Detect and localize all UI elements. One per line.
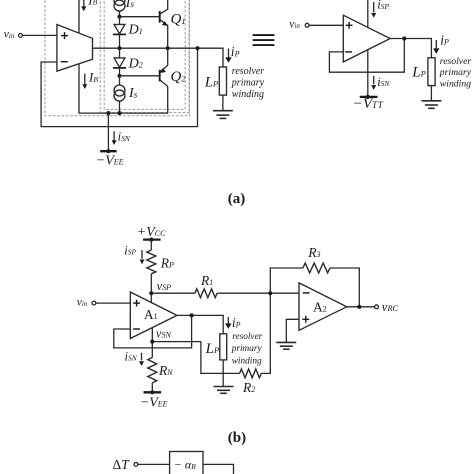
svg-text:winding: winding bbox=[232, 89, 264, 100]
ground (a-right) bbox=[421, 86, 441, 109]
svg-text:primary: primary bbox=[439, 67, 472, 78]
node vSP bbox=[149, 279, 171, 296]
wire A2 output bbox=[347, 306, 375, 308]
op-amp A2 bbox=[299, 283, 347, 330]
svg-text:resolver: resolver bbox=[232, 66, 265, 77]
wire RN to -VEE bbox=[151, 383, 153, 393]
node I (summing node) bbox=[268, 291, 272, 295]
node B (output / diode mid) bbox=[117, 46, 121, 50]
wire op-amp bottom supply pin and negative rail bbox=[79, 63, 168, 114]
wire R3 feedback loop bbox=[270, 268, 303, 293]
wire bottom supply pin to -VTT bbox=[367, 49, 369, 97]
current iSP arrow (right) bbox=[371, 0, 389, 18]
wire R1 to summing node bbox=[217, 292, 299, 294]
svg-text:resolver: resolver bbox=[232, 332, 263, 342]
wire Q2 collector to negative rail bbox=[167, 86, 169, 113]
input terminal vin bbox=[4, 29, 23, 41]
wire LP bottom to ground bbox=[222, 360, 224, 387]
ground (b left) bbox=[214, 387, 234, 394]
wire node to Q1 base bbox=[120, 16, 159, 18]
inductor LP (b) bbox=[205, 334, 227, 360]
ground (a-left) bbox=[213, 95, 233, 118]
current iSP arrow (b) bbox=[124, 243, 144, 264]
resistor R2 bbox=[240, 369, 262, 395]
resistor RN bbox=[148, 358, 173, 383]
supply -VEE bbox=[96, 149, 124, 168]
current iP arrow (b) bbox=[225, 315, 241, 330]
wire iSN drop to -VEE bbox=[107, 113, 109, 151]
bias current IB arrow bottom bbox=[82, 70, 98, 90]
supply -VTT bbox=[353, 95, 384, 112]
wire top supply pin bbox=[367, 0, 369, 29]
resolver winding note (a-right) bbox=[439, 56, 472, 90]
node D (emitter junction) bbox=[166, 46, 170, 50]
diode D1 bbox=[113, 17, 143, 49]
inductor LP (a-right) bbox=[411, 58, 435, 86]
wire vin to op-amp + input bbox=[23, 34, 57, 36]
svg-text:(a): (a) bbox=[228, 191, 246, 207]
svg-text:primary: primary bbox=[231, 344, 263, 354]
wire feedback loop (- input to output node) bbox=[41, 48, 197, 126]
node J (A2 output) bbox=[357, 305, 361, 309]
svg-text:resolver: resolver bbox=[440, 56, 472, 67]
current iSN arrow bbox=[112, 130, 131, 145]
input terminal vin (right) bbox=[289, 19, 309, 31]
resolver winding note (b) bbox=[231, 332, 263, 367]
wire +VCC to RP bbox=[150, 240, 152, 251]
wire op-amp output bus to LP drop bbox=[93, 48, 224, 67]
diode D2 bbox=[113, 48, 143, 76]
input terminal vin (b) bbox=[77, 297, 96, 309]
node H (A1 output) bbox=[190, 313, 194, 317]
wire gain block output (cut off) bbox=[203, 464, 234, 474]
current iP arrow (a-left) bbox=[225, 44, 239, 63]
svg-text:Is: Is bbox=[125, 0, 135, 11]
wire deltaT to gain block bbox=[138, 463, 170, 465]
node C (bias bottom) bbox=[117, 74, 121, 78]
node F (negative rail junctions) bbox=[106, 111, 110, 115]
dashed box middle bbox=[100, 0, 189, 113]
wire output to LP bbox=[390, 39, 431, 58]
wire vin to + input bbox=[309, 24, 343, 26]
resistor R3 bbox=[303, 245, 330, 273]
ground (A2) bbox=[276, 342, 296, 349]
bias current IB arrow top bbox=[81, 0, 97, 11]
svg-text:winding: winding bbox=[232, 357, 262, 367]
wire vSP to R1 bbox=[151, 292, 195, 294]
supply -VEE (b) bbox=[140, 390, 168, 410]
current source IS top (cut off by figure edge) bbox=[114, 0, 134, 17]
svg-text:IB: IB bbox=[87, 0, 97, 7]
svg-text:winding: winding bbox=[440, 79, 471, 90]
equivalence symbol bbox=[253, 35, 275, 45]
gain block -alphaR (cut off by figure edge) bbox=[170, 452, 203, 474]
wire vin to A1 + input bbox=[96, 302, 130, 304]
current iSN arrow (right) bbox=[371, 75, 390, 90]
wire vSN sense line to R2 bbox=[152, 342, 239, 374]
node E (feedback tap) bbox=[195, 46, 199, 50]
dashed box outer (buffer stage) bbox=[45, 0, 190, 116]
node G (output node right) bbox=[402, 36, 406, 40]
svg-text:primary: primary bbox=[231, 77, 265, 88]
wire A1 feedback (- input to output node) bbox=[114, 315, 192, 348]
resolver winding note (a-left) bbox=[231, 66, 265, 100]
op-amp U2 bbox=[343, 15, 390, 62]
svg-text:ΔT: ΔT bbox=[113, 457, 131, 472]
input terminal deltaT bbox=[113, 457, 138, 472]
wire A1 output bus to LP bbox=[177, 315, 223, 333]
node A (bias top) bbox=[117, 15, 121, 19]
wire op-amp top supply pin bbox=[78, 0, 80, 33]
transistor Q1 (NPN) bbox=[160, 0, 186, 48]
resistor RP bbox=[147, 250, 174, 274]
output terminal vRC bbox=[375, 300, 399, 314]
svg-text:(b): (b) bbox=[228, 430, 246, 446]
op-amp U1 (trapezoid buffer) bbox=[57, 25, 93, 72]
wire node to Q2 base bbox=[120, 75, 159, 77]
wire A2 + input to ground bbox=[286, 319, 299, 342]
node vSN bbox=[150, 326, 171, 343]
op-amp A1 bbox=[130, 292, 177, 339]
wire feedback loop bbox=[329, 39, 404, 73]
wire RP to vSP node bbox=[150, 274, 152, 303]
transistor Q2 (PNP) bbox=[160, 48, 187, 86]
current iSN arrow (b) bbox=[125, 349, 145, 366]
inductor LP (a-left, resolver primary) bbox=[204, 67, 227, 95]
resistor R1 bbox=[195, 273, 217, 298]
wire R2 up to summing node bbox=[261, 293, 270, 373]
wire vSN pin down to RN bbox=[151, 327, 153, 358]
current source IS bottom bbox=[114, 76, 138, 113]
dashed box inner (diode bias cell) bbox=[104, 0, 185, 109]
supply +VCC bbox=[137, 225, 166, 242]
current iP arrow (a-right) bbox=[433, 32, 449, 54]
svg-text:iSP: iSP bbox=[377, 0, 389, 12]
